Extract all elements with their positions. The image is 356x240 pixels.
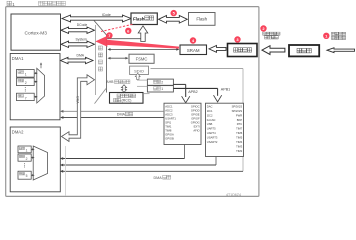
svg-text:BKP: BKP: [237, 118, 243, 122]
DMA2 bus arrow (bent, to matrix): [62, 75, 95, 142]
svg-text:TIM6: TIM6: [236, 131, 243, 135]
block 调试器: [289, 45, 319, 56]
arrow Flash接口 - Flash: [159, 16, 188, 24]
DCode bus arrow: [61, 27, 95, 33]
block DMA1: [10, 54, 60, 120]
svg-text:TIM3: TIM3: [236, 144, 243, 148]
block APB1 peripherals: [206, 103, 244, 156]
DMA2 request wire from SDIO: [61, 170, 243, 172]
red dashed line (Flash接口 to matrix): [101, 24, 133, 31]
DMA1 channel 通道2: [17, 78, 35, 86]
svg-text:2: 2: [26, 157, 28, 161]
DMA1 bus arrow: [61, 57, 94, 63]
svg-text:7: 7: [25, 96, 27, 100]
block SRAM: [180, 45, 207, 55]
svg-text:RTC: RTC: [237, 122, 243, 126]
DCode path line to Flash interface: [107, 38, 145, 40]
svg-text:DMA2: DMA2: [12, 130, 24, 135]
block APB2 peripherals: [164, 103, 201, 144]
svg-text:TIM1: TIM1: [165, 125, 172, 129]
block 调试模块: [228, 44, 258, 57]
dots: [24, 86, 27, 89]
red badge 2: [260, 25, 266, 31]
svg-text:PWR: PWR: [236, 113, 242, 117]
block 复位和时钟控制(RCC): [110, 93, 144, 104]
arrows channels to arbiter: [34, 72, 36, 74]
svg-text:ADC1: ADC1: [165, 105, 173, 109]
svg-text:DCode: DCode: [77, 23, 88, 27]
svg-text:System: System: [76, 38, 87, 42]
hollow arrow into 调试器 from right: [327, 48, 355, 53]
hollow arrow debug-module to SRAM: [209, 46, 226, 53]
svg-text:SDIO: SDIO: [134, 68, 144, 73]
svg-text:DAC: DAC: [207, 104, 213, 108]
svg-text:USB: USB: [207, 122, 213, 126]
svg-text:(RCC): (RCC): [122, 99, 132, 103]
wire bridge1 to APB1: [173, 87, 217, 89]
DMA1 channel 通道1: [17, 70, 35, 78]
svg-text:USART3: USART3: [207, 136, 218, 140]
red badge 3 (debug module): [234, 36, 240, 42]
SDIO request wire right and down: [151, 68, 244, 70]
annotation 二进制指令/数据读入: [263, 32, 266, 35]
red badge 1: [323, 33, 329, 39]
DMA2 channel 通道1: [18, 146, 31, 153]
block FSMC: [129, 54, 154, 63]
DMA request wire 1: [61, 110, 164, 112]
block SDIO: [130, 66, 149, 74]
svg-text:GPIOB: GPIOB: [165, 137, 174, 141]
svg-text:GPIOC: GPIOC: [191, 105, 200, 109]
svg-text:TIM4: TIM4: [236, 140, 243, 144]
stray vertical line: [65, 146, 67, 196]
svg-text:ADC3: ADC3: [165, 113, 173, 117]
DMA1 arbiter funnel: [37, 68, 45, 103]
block Flash: [189, 13, 216, 26]
svg-text:TIM2: TIM2: [236, 149, 243, 153]
block DMA2: [10, 127, 60, 192]
red badge 7: [106, 32, 112, 38]
DMA1 channel 通道7: [17, 93, 35, 100]
svg-text:I2C2: I2C2: [207, 113, 213, 117]
wire matrix-FSMC: [109, 57, 128, 59]
svg-text:5: 5: [26, 174, 28, 178]
svg-text:USART2: USART2: [207, 140, 218, 144]
figure title 图1: [7, 1, 11, 5]
svg-text:DMA: DMA: [117, 113, 126, 117]
annotation 程序指令/数据读入: [332, 32, 335, 35]
svg-text:UART5: UART5: [207, 127, 216, 131]
RCC stub: [143, 93, 150, 95]
small up arrow under SDIO: [135, 73, 140, 79]
hollow up arrow into Flash接口: [138, 26, 148, 42]
svg-text:AHB: AHB: [106, 80, 114, 84]
block Flash接口: [131, 13, 157, 25]
wire matrix-SRAM: [109, 48, 179, 50]
wire bridge2 to APB2: [173, 83, 185, 85]
DMA2 channel 通道2: [18, 154, 31, 161]
DMA2 request wire from APB1: [215, 157, 217, 166]
System bus arrow: [61, 41, 95, 47]
svg-text:Flash: Flash: [133, 17, 145, 22]
svg-text:GPIOF: GPIOF: [191, 117, 200, 121]
bridge stubs from AHB: [137, 79, 147, 81]
svg-text:USART1: USART1: [165, 117, 176, 121]
svg-text:ADC2: ADC2: [165, 109, 173, 113]
svg-text:GPIOG: GPIOG: [191, 121, 200, 125]
red badge 5 (Flash): [171, 10, 177, 16]
bus matrix 总线矩阵: [95, 25, 97, 95]
svg-text:DMA: DMA: [154, 176, 163, 180]
arbiter up arrow: [40, 64, 42, 69]
svg-text:2: 2: [25, 81, 27, 85]
svg-text:SPI3/I2S: SPI3/I2S: [232, 104, 243, 108]
arrows channels to arbiter: [31, 148, 33, 150]
svg-text:ICode: ICode: [102, 13, 111, 17]
svg-text:AFIO: AFIO: [193, 129, 199, 133]
red badge 6: [125, 28, 131, 34]
svg-text:GPIOA: GPIOA: [165, 133, 174, 137]
hollow arrow 调试器 to 调试模块: [262, 46, 285, 55]
svg-text:EXTI: EXTI: [194, 125, 200, 129]
svg-text:DMA1: DMA1: [12, 56, 24, 61]
svg-text:Flash: Flash: [196, 17, 207, 22]
svg-text:TIM8: TIM8: [165, 129, 172, 133]
red thick arrow (SRAM to Cortex buses): [95, 36, 179, 49]
svg-text:DMA: DMA: [77, 53, 85, 57]
svg-text:FSMC: FSMC: [136, 57, 148, 62]
figure frame: [6, 7, 259, 197]
dots: [23, 162, 26, 165]
svg-text:UART4: UART4: [207, 131, 216, 135]
vertical double arrow AHB-RCC: [121, 85, 126, 93]
svg-text:SPI1: SPI1: [165, 121, 171, 125]
ICode bus arrow: [62, 15, 131, 22]
svg-text:DMA: DMA: [76, 96, 80, 104]
svg-text:1: 1: [26, 149, 28, 153]
svg-text:TIM5: TIM5: [236, 136, 243, 140]
DMA2 arbiter funnel: [33, 146, 47, 180]
DMA2 request wire from APB2: [184, 145, 186, 159]
svg-text:GPIOD: GPIOD: [191, 109, 200, 113]
svg-text:APB1: APB1: [221, 87, 230, 91]
svg-text:1: 1: [25, 73, 27, 77]
red badge 4 (SRAM): [190, 37, 196, 43]
svg-text:I2C1: I2C1: [207, 109, 213, 113]
svg-text:SRAM: SRAM: [187, 48, 200, 53]
svg-text:TIM7: TIM7: [236, 127, 243, 131]
block Cortex-M3: [11, 14, 61, 50]
svg-text:1: 1: [161, 87, 163, 91]
svg-text:2: 2: [161, 81, 163, 85]
svg-text:4T1D6Z4: 4T1D6Z4: [226, 193, 241, 197]
DMA2 channel 通道5: [18, 171, 31, 179]
block 桥接2: [147, 79, 173, 85]
figure title 系统结构框图: [39, 1, 43, 5]
svg-text:SPI2/I2S: SPI2/I2S: [232, 109, 243, 113]
svg-text:Cortex-M3: Cortex-M3: [25, 30, 48, 36]
block 桥接1: [147, 86, 173, 92]
DMA request wire 2: [61, 117, 164, 119]
svg-text:GPIOE: GPIOE: [191, 113, 200, 117]
svg-text:APB2: APB2: [188, 90, 197, 94]
svg-text:bxCAN: bxCAN: [207, 118, 216, 122]
